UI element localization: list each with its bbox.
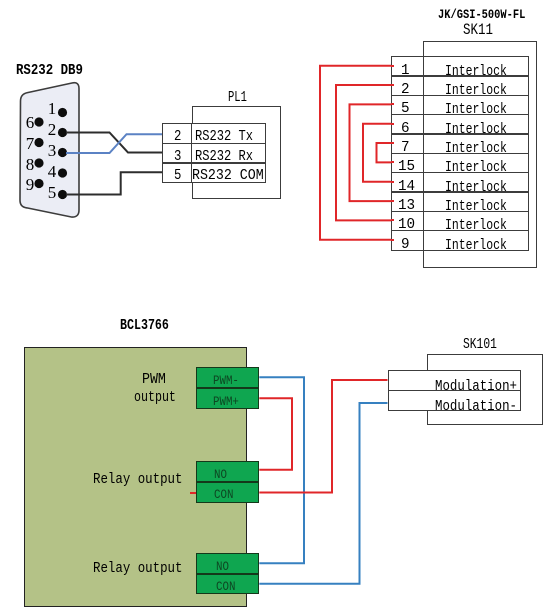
PL1 label RS232 Rx — [195, 149, 253, 164]
connector RS232 DB9 shell — [20, 83, 79, 217]
SK11 pin number 15 — [398, 159, 415, 174]
label PL1 — [228, 90, 247, 105]
SK11 row divider 1/2 — [391, 75, 529, 76]
SK11 row divider 13/10 — [391, 211, 529, 212]
wire stub tip at SK11 pin 6 — [391, 123, 394, 125]
pin 3 dot — [58, 148, 67, 157]
SK11 row divider 6/7 — [391, 133, 529, 134]
pin 8 dot — [34, 158, 43, 167]
SK11 pin number 10 — [398, 217, 415, 232]
wire BCL3766 PWM- to relay2 NO blue — [259, 377, 304, 563]
label Relay output 1 — [93, 472, 182, 487]
pin label 4 — [44, 163, 56, 180]
pin label 2 — [44, 121, 56, 138]
terminal label PWM- — [213, 374, 239, 387]
SK101 row divider Modulation+/Modulation- — [388, 390, 522, 391]
SK11 label Interlock pin13 — [445, 199, 507, 214]
wire stub tip at SK11 pin 10 — [391, 219, 394, 221]
PL1 row divider pin3/pin5 — [162, 162, 266, 163]
SK11 pin number 2 — [401, 82, 410, 97]
wire BCL3766 PWM+ to relay1 NO red — [259, 398, 292, 469]
PL1 pin number 5 — [174, 168, 181, 183]
SK11 pin number 14 — [398, 179, 415, 194]
SK11 row divider 10/9 — [391, 230, 529, 231]
pin label 3 — [44, 142, 56, 159]
SK11 pin number 6 — [401, 121, 410, 136]
SK11 row divider 2/5 — [391, 95, 529, 96]
pin label 7 — [22, 135, 34, 152]
module BCL3766 body — [24, 347, 247, 607]
SK11 pin rows frame — [391, 56, 529, 251]
wire SK11 pin6 to pin14 red — [363, 124, 394, 182]
terminal block relay1 pair — [196, 461, 259, 503]
terminal divider PWM-/PWM+ — [197, 387, 258, 389]
connector PL1 outline — [192, 106, 281, 200]
connector SK11 outline — [423, 41, 537, 268]
SK11 row divider 5/6 — [391, 114, 529, 115]
SK11 row divider 15/14 — [391, 172, 529, 173]
PL1 number cell divider — [191, 123, 192, 183]
PL1 row divider pin2/pin3 — [162, 143, 266, 144]
terminal block relay2 pair — [196, 553, 259, 594]
terminal label relay2 NO — [216, 560, 229, 573]
terminal divider relay2 NO/CON — [197, 573, 258, 575]
terminal divider relay1 NO/CON — [197, 481, 258, 483]
SK11 label Interlock pin7 — [445, 141, 507, 156]
terminal label relay2 CON — [216, 580, 235, 593]
pin label 1 — [44, 100, 56, 117]
wire stub tip at SK11 pin 2 — [391, 84, 394, 86]
SK11 number cell divider — [423, 56, 424, 251]
connector SK101 outline — [427, 354, 543, 425]
title JK/GSI-500W-FL — [438, 8, 525, 21]
SK11 pin number 7 — [401, 140, 410, 155]
wire SK11 pin7 to pin15 red — [377, 143, 395, 162]
label SK11 — [463, 22, 493, 38]
pin 9 dot — [34, 179, 43, 188]
wire DB9 pin5 to PL1 pin5 (RS232 COM) black — [66, 172, 162, 194]
terminal block PWM pair — [196, 367, 259, 409]
SK11 pin number 1 — [401, 63, 410, 78]
pin label 6 — [22, 114, 34, 131]
SK11 label Interlock pin6 — [445, 122, 507, 137]
pin label 8 — [22, 156, 34, 173]
SK11 row divider 7/15 — [391, 153, 529, 154]
label output — [134, 390, 176, 405]
wire stub tip at SK11 pin 1 — [391, 65, 394, 67]
pin 2 dot — [58, 128, 67, 137]
PL1 label RS232 COM — [192, 168, 264, 183]
pin 1 dot — [58, 108, 67, 117]
wire relay2 CON to SK101 Modulation- blue — [259, 403, 387, 584]
PL1 pin number 3 — [174, 149, 181, 164]
wire SK11 pin5 to pin13 red — [350, 104, 395, 201]
SK11 label Interlock pin9 — [445, 238, 507, 253]
label PWM — [142, 372, 166, 387]
wire SK11 pin2 to pin10 red — [336, 85, 394, 220]
pin 5 dot — [58, 190, 67, 199]
SK11 label Interlock pin2 — [445, 83, 507, 98]
wire stub tip at SK11 pin 15 — [391, 161, 394, 163]
terminal label relay1 CON — [214, 488, 233, 501]
SK11 label Interlock pin1 — [445, 64, 507, 79]
pin 7 dot — [34, 138, 43, 147]
SK101 pin rows frame — [388, 370, 522, 411]
SK11 label Interlock pin5 — [445, 102, 507, 117]
title BCL3766 — [120, 318, 169, 333]
SK11 pin number 9 — [401, 237, 410, 252]
wire relay1 CON to SK101 Modulation+ red — [259, 380, 387, 493]
pin 4 dot — [58, 168, 67, 177]
wire stub tip at SK11 pin 14 — [391, 181, 394, 183]
PL1 pin rows frame — [162, 123, 266, 183]
pin 6 dot — [34, 117, 43, 126]
PL1 label RS232 Tx — [195, 129, 253, 144]
title RS232 DB9 — [16, 63, 83, 78]
SK11 label Interlock pin10 — [445, 218, 507, 233]
SK11 pin number 13 — [398, 198, 415, 213]
terminal label relay1 NO — [214, 468, 227, 481]
PL1 pin number 2 — [174, 129, 181, 144]
wire stub tip at SK11 pin 13 — [391, 200, 394, 202]
SK11 label Interlock pin15 — [445, 160, 507, 175]
wire DB9 pin3 to PL1 pin2 (RS232 Tx) blue — [66, 134, 162, 153]
wire SK11 pin1 to pin9 red — [320, 66, 394, 240]
wire DB9 pin2 to PL1 pin3 (RS232 Rx) black — [66, 133, 162, 153]
SK11 pin number 5 — [401, 101, 410, 116]
wire stub tip at SK11 pin 7 — [391, 142, 394, 144]
wire relay1 CON left stub red — [190, 492, 196, 494]
label SK101 — [463, 337, 497, 352]
wire stub tip at SK11 pin 9 — [391, 239, 394, 241]
label Relay output 2 — [93, 561, 182, 576]
SK101 label Modulation+ — [435, 379, 517, 394]
pin label 5 — [44, 184, 56, 201]
pin label 9 — [22, 176, 34, 193]
wire stub tip at SK11 pin 5 — [391, 103, 394, 105]
terminal label PWM+ — [213, 395, 239, 408]
SK11 label Interlock pin14 — [445, 180, 507, 195]
SK11 row divider 14/13 — [391, 191, 529, 192]
SK101 label Modulation- — [435, 399, 517, 414]
